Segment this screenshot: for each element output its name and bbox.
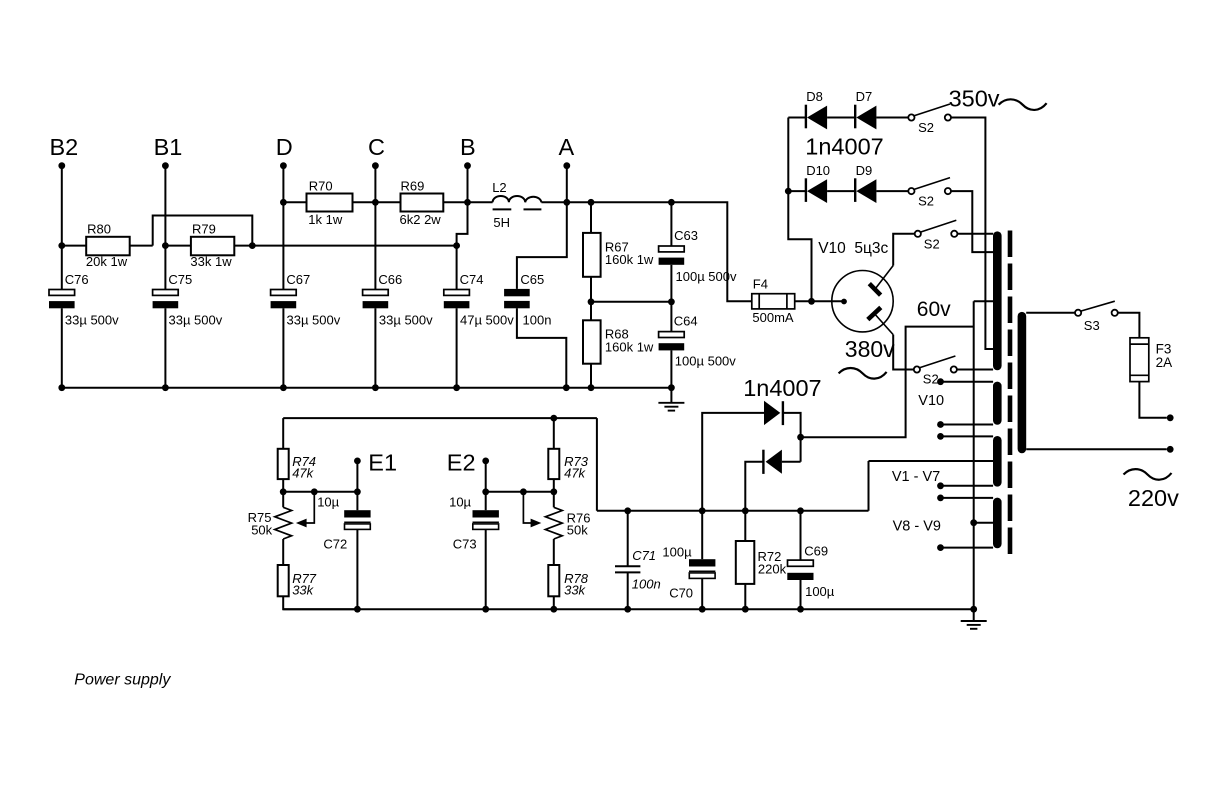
node C dot [372, 162, 379, 169]
wire: top to C63 [670, 202, 672, 246]
junction dot D/top [280, 199, 287, 206]
junction dot bus/C65 [563, 384, 570, 391]
wire: S2 row1 to 350v tap [951, 118, 993, 350]
ground under transformer [961, 620, 987, 622]
wire: top-section ground bus [62, 387, 672, 389]
wire: R80 to jog corner [130, 245, 153, 247]
wire: C65 to bus jog [517, 308, 566, 387]
wire: E1 junction row [283, 491, 357, 493]
svg-text:60v: 60v [917, 298, 951, 321]
junction dot bus/C74 [453, 384, 460, 391]
wire: mid bus to C69 [800, 511, 802, 560]
svg-text:B: B [460, 134, 476, 160]
wire: F4 to tube anode [795, 300, 842, 302]
switch S2 row1 lever [914, 104, 950, 116]
wire: F3 to line terminal [1139, 382, 1166, 418]
switch S2 row1 right contact [945, 114, 951, 120]
wire: lower diode left to R72 column [745, 462, 763, 511]
wire: D7 to switch S2 row1 [876, 117, 908, 119]
junction dot A/top [563, 199, 570, 206]
svg-text:V8 - V9: V8 - V9 [893, 519, 941, 535]
junction dot bus/C70 [699, 606, 706, 613]
capacitor C64 [659, 332, 685, 338]
terminal dot V10 top [937, 378, 944, 385]
wire: V8-V9 winding bottom lead [941, 547, 994, 549]
wire: A vertical [566, 166, 568, 203]
svg-text:D8: D8 [806, 89, 823, 104]
wire: V1-V7 winding top lead [941, 435, 994, 437]
wire: B1 vertical [164, 166, 166, 290]
wire: mid bus to R72 [744, 511, 746, 541]
wire: C74 to bus [456, 308, 458, 387]
junction dot E1/C72 [354, 488, 361, 495]
svg-text:S2: S2 [923, 372, 939, 387]
capacitor C72 [344, 510, 370, 517]
wire: primary bottom to line terminal [1026, 448, 1167, 450]
junction dot bus/C64 [668, 384, 675, 391]
svg-text:160k 1w: 160k 1w [605, 252, 654, 267]
wire: R78 to bus [553, 596, 555, 609]
svg-text:S2: S2 [918, 120, 934, 135]
wire: junction to C73 [485, 492, 487, 510]
svg-text:C71: C71 [632, 548, 656, 563]
wire: E2 junction row [486, 491, 554, 493]
diode D9 [856, 179, 876, 203]
node D dot [280, 162, 287, 169]
resistor R67 [583, 233, 601, 277]
wire: lower diode right [782, 461, 801, 463]
wire: V8-V9 winding top lead [941, 497, 994, 499]
svg-text:D: D [276, 134, 293, 160]
resistor R74 [278, 449, 289, 479]
tube V10 upper heater lead [875, 266, 893, 290]
svg-text:100n: 100n [632, 576, 661, 591]
capacitor C65 plate2 [504, 301, 530, 308]
junction dot bus/B1 [162, 384, 169, 391]
svg-text:50k: 50k [567, 523, 588, 538]
diode D8 [807, 106, 827, 130]
svg-text:100n: 100n [523, 313, 552, 328]
junction dot ground bus/transformer [970, 606, 977, 613]
wire: C66 to bus [374, 308, 376, 387]
wire: C vertical [374, 166, 376, 290]
wire: S3 to F3 [1118, 313, 1140, 338]
svg-text:220v: 220v [1128, 485, 1179, 511]
capacitor C67 [271, 290, 297, 296]
capacitor C71 [615, 565, 640, 567]
wire: row2 left [788, 190, 806, 192]
wire: mid bus [597, 510, 869, 512]
junction dot bias diodes [797, 434, 804, 441]
svg-text:47k: 47k [292, 466, 314, 481]
svg-text:5H: 5H [493, 215, 510, 230]
svg-text:C69: C69 [804, 544, 828, 559]
svg-text:R80: R80 [87, 221, 111, 236]
svg-text:100µ: 100µ [662, 545, 692, 560]
junction dot B/top [464, 199, 471, 206]
svg-text:C64: C64 [674, 314, 698, 329]
terminal dot V8-V9 bottom [937, 544, 944, 551]
potentiometer R76 [545, 507, 562, 539]
wire: R75 top lead [282, 492, 284, 508]
wire: R72 to bus [744, 584, 746, 609]
switch S3 left contact [1075, 310, 1081, 316]
wire: C72 to bus [356, 529, 358, 609]
wire: primary top to S3 [1026, 312, 1075, 314]
wire: top bus R69 to B [443, 201, 467, 203]
svg-text:B2: B2 [50, 134, 79, 160]
inductor L2 core bars [493, 208, 512, 210]
node B2 dot [58, 162, 65, 169]
junction dot mid/C64 [668, 298, 675, 305]
bias diode upper cathode bar [782, 401, 784, 425]
junction dot C74/row2 [453, 242, 460, 249]
wire: jog over R79 [153, 216, 253, 246]
junction dot wiper left [311, 488, 318, 495]
wire: top bus D to R70 [283, 201, 306, 203]
wire: R76 top lead [553, 492, 555, 508]
resistor R79 [191, 237, 234, 256]
svg-text:A: A [559, 134, 575, 160]
svg-text:R79: R79 [192, 221, 216, 236]
wire: S2 row2 to tap [951, 191, 993, 252]
junction dot bus/C69 [797, 606, 804, 613]
transformer heater winding V8-V9 [993, 502, 1002, 544]
svg-text:C75: C75 [168, 272, 192, 287]
node B1 dot [162, 162, 169, 169]
svg-text:S2: S2 [924, 237, 940, 252]
tilde 220v [1124, 469, 1172, 480]
wire: mid row to R68 [590, 302, 592, 321]
junction dot mid/R67 [588, 298, 595, 305]
wire: top rail to R73 [553, 418, 555, 449]
bias diode upper [764, 401, 780, 425]
wire: V10 winding bottom lead [941, 424, 994, 426]
wire: B vertical with jog to C74 [457, 166, 468, 290]
switch S2 row4 lever [920, 356, 956, 368]
node E2 dot [482, 458, 489, 465]
svg-text:20k 1w: 20k 1w [86, 254, 128, 269]
junction dot R73/top rail [550, 415, 557, 422]
wire: D8 to D7 [827, 117, 855, 119]
capacitor C66 [363, 290, 389, 296]
capacitor C75 [153, 290, 179, 296]
resistor R77 [278, 565, 289, 596]
svg-text:S2: S2 [918, 194, 934, 209]
svg-text:1k 1w: 1k 1w [308, 212, 343, 227]
junction dot B1/row2 [162, 242, 169, 249]
wire: R79 to C74 column [234, 245, 456, 247]
switch S2 row4 right contact [951, 366, 957, 372]
switch S2 row2 lever [914, 178, 950, 190]
svg-text:1n4007: 1n4007 [743, 375, 821, 401]
svg-text:C66: C66 [378, 272, 402, 287]
transformer HV secondary winding [993, 236, 1002, 366]
node A dot [563, 162, 570, 169]
wire: C69 to bus [800, 580, 802, 609]
svg-text:S3: S3 [1084, 318, 1100, 333]
wiper R76 arrow [523, 492, 532, 523]
wire: C75 to bus [164, 308, 166, 387]
svg-text:33k: 33k [564, 583, 586, 598]
junction dot mid/R72 [742, 507, 749, 514]
capacitor C73 [473, 510, 499, 517]
svg-text:350v: 350v [949, 85, 1000, 111]
wire: V10 winding top lead [941, 381, 994, 383]
wire: E1 drop [356, 463, 358, 492]
switch S2 row3 lever [920, 220, 956, 232]
wire: bottom ground bus [283, 608, 974, 610]
wire: E2 drop [485, 463, 487, 492]
svg-text:100µ: 100µ [805, 584, 835, 599]
svg-text:R69: R69 [401, 179, 425, 194]
wire: diode branch vertical [788, 118, 811, 302]
svg-text:C67: C67 [286, 272, 310, 287]
junction dot R67/top [588, 199, 595, 206]
fuse F4 end bars [758, 294, 760, 309]
bias diode lower cathode bar [762, 450, 764, 474]
svg-text:C76: C76 [65, 272, 89, 287]
wire: top bus R70 to C [353, 201, 376, 203]
junction dot bus/C66 [372, 384, 379, 391]
wire: mid bus to C71 [627, 511, 629, 567]
wire: top bus C to R69 [375, 201, 400, 203]
junction dot bus/B2 [58, 384, 65, 391]
tube V10 anode terminal dot [841, 299, 847, 305]
switch S2 row2 right contact [945, 188, 951, 194]
wire: R75 bottom lead [282, 539, 284, 565]
wire: V1-V7 winding bottom lead [941, 485, 994, 487]
svg-text:500mA: 500mA [752, 310, 794, 325]
tube V10 envelope [832, 271, 893, 332]
diode D10 cathode bar [805, 178, 807, 202]
svg-text:1n4007: 1n4007 [805, 134, 883, 160]
svg-text:V10 5ц3с: V10 5ц3с [818, 240, 888, 257]
diode D10 [807, 179, 827, 203]
switch S2 row1 left contact [908, 114, 914, 120]
svg-text:F4: F4 [753, 276, 768, 291]
diode D7 cathode bar [854, 105, 856, 129]
wire: R74 to junction [282, 479, 284, 492]
junction dot B2/row2 [58, 242, 65, 249]
fuse F4 body [752, 294, 795, 309]
svg-text:10µ: 10µ [317, 494, 339, 509]
svg-text:10µ: 10µ [449, 494, 471, 509]
junction dot bus/C67 [280, 384, 287, 391]
svg-text:47µ 500v: 47µ 500v [460, 313, 514, 328]
terminal dot V10 bottom [937, 421, 944, 428]
junction dot bus/R72 [742, 606, 749, 613]
wire: HV tap 60v center [974, 300, 993, 302]
svg-text:E2: E2 [447, 449, 476, 475]
svg-text:160k 1w: 160k 1w [605, 340, 654, 355]
tilde 350v [999, 99, 1047, 110]
svg-text:380v: 380v [845, 336, 895, 362]
svg-text:33µ 500v: 33µ 500v [287, 313, 341, 328]
capacitor C63 [659, 246, 685, 252]
junction dot bus/R78 [550, 606, 557, 613]
resistor R78 [548, 565, 559, 596]
diode D8 cathode bar [805, 105, 807, 129]
wire: B2 to R80 [62, 245, 86, 247]
wire: C71 to bus [627, 572, 629, 609]
wire: top bus A to R67 column [567, 201, 591, 203]
wire: A to C65 jog [517, 202, 567, 289]
resistor R72 [736, 541, 755, 584]
terminal dot V1-V7 top [937, 433, 944, 440]
svg-text:L2: L2 [492, 180, 506, 195]
bias diode lower [766, 450, 782, 474]
svg-text:100µ 500v: 100µ 500v [675, 353, 736, 368]
svg-text:6k2 2w: 6k2 2w [400, 212, 442, 227]
tube V10 lower heater lead [874, 313, 893, 334]
transformer filament winding V10 [993, 386, 1002, 421]
wire: upper diode to junction [784, 413, 801, 462]
wire: C76 to bus [61, 308, 63, 387]
wire: mid bus up to transformer tap [868, 461, 870, 511]
svg-text:47k: 47k [564, 466, 586, 481]
junction dot R74/R75 [280, 488, 287, 495]
svg-text:C72: C72 [323, 536, 347, 551]
wire: top rail drop to mid bus [596, 418, 598, 511]
wire: R77 to bus [283, 596, 357, 609]
wire: R68 to bus [590, 364, 592, 388]
capacitor C69 white plate [788, 560, 814, 566]
capacitor C65 plate1 [504, 289, 530, 296]
terminal dot V8-V9 top [937, 495, 944, 502]
wiper R75 arrow [305, 492, 314, 523]
junction dot wiper right [520, 488, 527, 495]
junction dot mid/C70 [699, 507, 706, 514]
wire: R73 to junction [553, 479, 555, 492]
svg-text:33µ 500v: 33µ 500v [379, 313, 433, 328]
fuse F3 end bars [1130, 343, 1149, 345]
wire: top rail to R74 [282, 418, 284, 449]
wire: top bus R67 to C63 column [591, 201, 671, 203]
junction dot mid/C71 [624, 507, 631, 514]
terminal dot V1-V7 bottom [937, 482, 944, 489]
svg-text:33µ 500v: 33µ 500v [65, 313, 119, 328]
wire: upper bias diode left [702, 413, 764, 511]
transformer primary winding [1018, 316, 1027, 449]
wire: C64 to bus [670, 350, 672, 387]
ground under C64 [658, 402, 684, 404]
transformer heater winding V1-V7 [993, 440, 1002, 482]
svg-text:D10: D10 [806, 163, 830, 178]
junction dot bus/C71 [624, 606, 631, 613]
terminal dot line top [1167, 414, 1174, 421]
svg-text:2A: 2A [1156, 355, 1173, 370]
terminal dot line bottom [1167, 446, 1174, 453]
wire: junction to C72 [356, 492, 358, 510]
wire: tube lower heater to S2 row4 [893, 335, 914, 370]
wire: V1-V7 tap long lead [869, 460, 994, 462]
wire: top bus C63 to F4 drop [671, 202, 751, 301]
svg-text:220k: 220k [758, 562, 787, 577]
fuse F3 body [1130, 338, 1149, 382]
svg-text:33µ 500v: 33µ 500v [169, 313, 223, 328]
switch S2 row4 left contact [914, 366, 920, 372]
transformer core [1008, 231, 1013, 555]
switch S3 right contact [1112, 310, 1118, 316]
wire: mid bus to C70 [701, 511, 703, 559]
svg-text:C63: C63 [674, 228, 698, 243]
wire: S2 row4 to winding bottom [957, 369, 993, 371]
diode D7 [856, 106, 876, 130]
wire: D vertical [282, 166, 284, 290]
svg-text:C65: C65 [520, 272, 544, 287]
wire: row1 left [788, 117, 806, 119]
resistor R70 [307, 194, 353, 212]
wire: ground stem transformer [973, 609, 975, 621]
svg-text:50k: 50k [251, 522, 272, 537]
svg-text:100µ 500v: 100µ 500v [676, 269, 737, 284]
wire: C63 to mid row [670, 265, 672, 302]
wire: mid row to C64 [670, 302, 672, 332]
junction dot bus/C73 [482, 606, 489, 613]
wire: top bus B to L2 [468, 201, 493, 203]
capacitor C74 [444, 290, 470, 296]
wire: HV center-tap ground vertical [973, 301, 975, 609]
svg-text:C73: C73 [453, 536, 477, 551]
capacitor C76 [49, 290, 75, 296]
capacitor C69 black plate [787, 573, 813, 580]
switch S2 row2 left contact [908, 188, 914, 194]
wire: C67 to bus [282, 308, 284, 387]
svg-text:33k: 33k [292, 583, 314, 598]
junction dot R73/R76 [550, 488, 557, 495]
svg-text:B1: B1 [154, 134, 183, 160]
wire: V8-V9 winding mid tap [974, 522, 993, 524]
wire: bias top rail [283, 417, 597, 419]
tube V10 lower plate [868, 307, 881, 319]
junction dot R79 output [249, 242, 256, 249]
inductor L2 coil [493, 196, 542, 202]
node E1 dot [354, 458, 361, 465]
wire: C70 to bus [701, 578, 703, 609]
junction dot V8-V9 mid tap [970, 519, 977, 526]
wire: R76 bottom lead [553, 539, 555, 565]
wire: bus to ground stem [670, 388, 672, 403]
wire: D9 to switch S2 row2 [876, 190, 908, 192]
switch S2 row3 left contact [915, 231, 921, 237]
wire: D10 to D9 [827, 190, 855, 192]
tube V10 upper plate [869, 284, 880, 296]
junction dot bus/R68 [588, 384, 595, 391]
resistor R73 [548, 449, 559, 479]
junction dot mid/C69 [797, 507, 804, 514]
junction dot bus/C72 [354, 606, 361, 613]
wire: 60v run to tube heater [801, 327, 974, 438]
wire: top bus L2 to A [541, 201, 566, 203]
svg-text:C74: C74 [460, 272, 484, 287]
svg-text:V1 - V7: V1 - V7 [892, 469, 940, 485]
wire: tube upper heater to S2 row3 [893, 234, 915, 266]
capacitor C70 [689, 559, 715, 566]
node B dot [464, 162, 471, 169]
resistor R68 [583, 320, 601, 363]
wire: mid row R67-C64 [591, 301, 671, 303]
svg-text:D7: D7 [856, 89, 873, 104]
tilde 380v [839, 368, 887, 379]
wire: B2 vertical [61, 166, 63, 290]
junction dot C63/top [668, 199, 675, 206]
wire: B1 to R79 [165, 245, 191, 247]
svg-text:D9: D9 [856, 163, 873, 178]
junction dot diode rows [785, 188, 792, 195]
switch S3 lever [1081, 301, 1115, 311]
junction dot C/top [372, 199, 379, 206]
